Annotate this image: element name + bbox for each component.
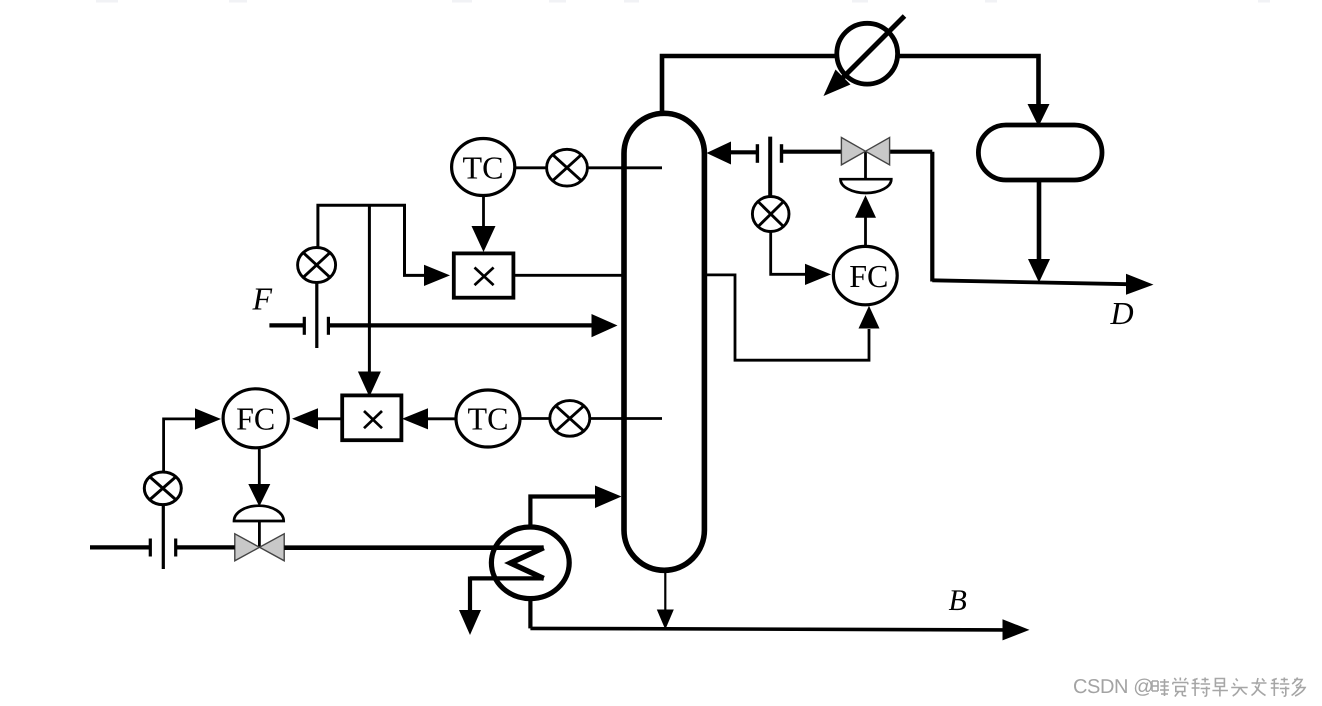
svg-text:FC: FC xyxy=(236,401,275,437)
svg-text:TC: TC xyxy=(468,401,509,437)
transmitter break bars on reflux line xyxy=(757,137,781,197)
svg-text:FC: FC xyxy=(849,258,888,294)
reboiler E2 (circle with coil) xyxy=(284,527,569,599)
wire: reflux line into column with arrowhead xyxy=(707,142,842,165)
wire+arrow: steam FT to FC2 input xyxy=(164,408,221,473)
wire: sensor tap into column (lower) xyxy=(590,417,662,420)
wire: vapor return from reboiler to column xyxy=(530,486,621,529)
wire: M1 output to column wall xyxy=(513,274,622,277)
column tap tick (upper) xyxy=(621,166,662,169)
distillation column T1 xyxy=(624,113,704,570)
control valve V2 (bottom, steam) xyxy=(234,506,284,561)
wire+arrow: TC2 output into M2 right xyxy=(402,408,456,429)
multiplier M2 (x box, lower) xyxy=(342,395,401,440)
wire: feed ratio branch loop xyxy=(318,205,424,372)
wire: TC1 to sensor and column tap xyxy=(515,166,547,169)
reflux drum D1 xyxy=(978,104,1102,180)
sensor TT (crossed circle, bottom) xyxy=(550,401,590,437)
svg-text:D: D xyxy=(1110,295,1134,331)
transmitter FT (crossed circle) on reflux line xyxy=(752,197,789,232)
wire: reboiler bottom to B line xyxy=(528,597,532,628)
column tap tick (lower) xyxy=(621,417,662,420)
wire: column bottoms outlet arrow xyxy=(657,571,674,630)
wire+arrow: M2 output into FC2 xyxy=(292,408,343,429)
wire: distillate product line D xyxy=(932,274,1153,295)
transmitter bars on steam line xyxy=(150,505,175,570)
top cropped text remnants xyxy=(96,0,1270,3)
wire: FC2 output down to valve V2 actuator xyxy=(248,448,270,507)
sensor TT (crossed circle, top) xyxy=(547,149,588,186)
transmitter bars on feed line xyxy=(304,283,328,349)
svg-text:F: F xyxy=(252,281,273,317)
wire: condensate out with down arrow xyxy=(459,577,481,636)
svg-text:B: B xyxy=(949,584,967,617)
wire: overhead vapor line from column top to condenser and drum xyxy=(662,56,1039,113)
svg-text:CSDN @: CSDN @ xyxy=(1073,676,1153,698)
controller FC2 (bottom left) xyxy=(223,389,288,448)
controller FC1 (top right) xyxy=(833,246,897,304)
wire: TC2 to sensor xyxy=(520,417,550,420)
arrow into M2 top xyxy=(358,372,381,397)
wire: feed line F into column xyxy=(269,314,617,337)
wire: sensor tap into column (upper) xyxy=(587,166,662,169)
wire: FC1 output up to valve actuator xyxy=(855,195,876,248)
transmitter FT (crossed circle) on steam line xyxy=(144,472,181,505)
controller TC2 (bottom) xyxy=(456,390,520,447)
watermark CJK glyphs (hand-drawn) xyxy=(1152,678,1305,697)
controller TC1 (top) xyxy=(452,139,515,196)
wire: bottoms product line B xyxy=(530,619,1029,640)
arrow into M1 left xyxy=(424,265,450,286)
wire: ratio setpoint line from multiplier through column to FC1 xyxy=(704,275,879,360)
transmitter FT (crossed circle) on feed line xyxy=(298,248,336,283)
svg-text:TC: TC xyxy=(463,150,504,186)
condenser E1 (circle with diagonal arrow) xyxy=(824,16,905,96)
wire: drum outlet down to distillate line xyxy=(1028,180,1050,283)
control valve V1 (top) xyxy=(841,138,933,282)
wire: TC1 output down to multiplier M1 xyxy=(472,195,496,252)
wire: FT to FC1 input xyxy=(771,232,831,286)
multiplier M1 (x box, upper) xyxy=(454,253,514,297)
wire: steam line into reboiler xyxy=(90,545,235,549)
